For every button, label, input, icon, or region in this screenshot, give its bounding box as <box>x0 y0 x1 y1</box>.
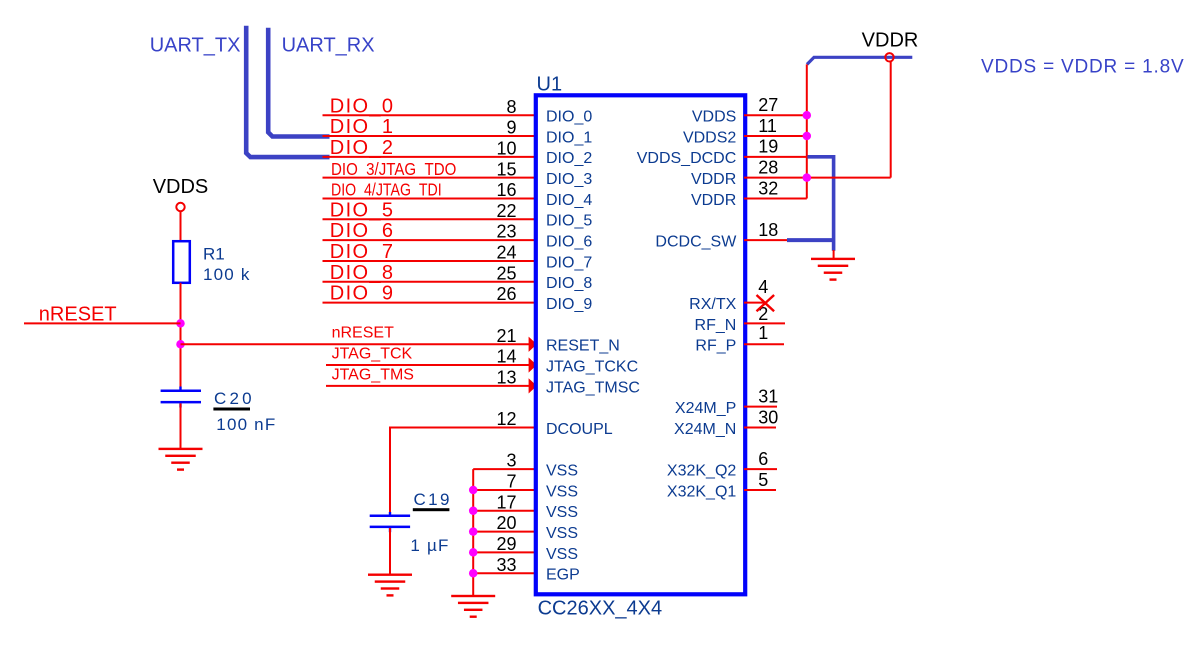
power symbol VDDS (open circle) <box>176 203 184 211</box>
svg-text:29: 29 <box>496 534 516 554</box>
wire pin 30 X24M_N stub <box>744 427 776 429</box>
svg-text:15: 15 <box>496 159 516 179</box>
wire pin 1 RF_P stub <box>744 343 784 345</box>
capacitor C20 top plate <box>161 390 201 393</box>
svg-text:19: 19 <box>758 137 778 157</box>
wire DIO_0 to pin 8 <box>323 114 537 116</box>
svg-text:X24M_P: X24M_P <box>675 400 736 417</box>
svg-text:3: 3 <box>506 451 516 471</box>
svg-text:VSS: VSS <box>546 463 578 480</box>
wire pin 6 X32K_Q2 stub <box>744 468 777 470</box>
svg-text:DCDC_SW: DCDC_SW <box>655 234 737 251</box>
svg-text:DIO_1: DIO_1 <box>546 129 592 146</box>
svg-text:RF_P: RF_P <box>695 338 736 355</box>
svg-text:100 k: 100 k <box>203 265 251 284</box>
svg-text:9: 9 <box>506 118 516 138</box>
svg-text:CC26XX_4X4: CC26XX_4X4 <box>538 597 663 619</box>
svg-text:JTAG_TMSC: JTAG_TMSC <box>546 379 640 396</box>
IC U1 body CC26XX_4X4 <box>536 95 745 594</box>
svg-text:8: 8 <box>506 97 516 117</box>
svg-text:JTAG_TCKC: JTAG_TCKC <box>546 358 638 375</box>
wire JTAG_TCK to pin 14 <box>326 364 530 366</box>
svg-text:UART_TX: UART_TX <box>150 35 241 57</box>
wire DIO_5 to pin 22 <box>323 218 537 220</box>
wire UART_RX bus (thick blue L-shape into DIO_1) <box>268 28 329 137</box>
capacitor C20 refdes underline <box>213 408 250 411</box>
node junction VDDR pin28 <box>803 173 812 182</box>
wire VSS pin row 19 <box>473 510 536 512</box>
svg-text:VSS: VSS <box>546 504 578 521</box>
svg-text:26: 26 <box>496 284 516 304</box>
capacitor C19 plate stubs <box>389 512 391 515</box>
svg-text:16: 16 <box>496 180 516 200</box>
ground below EGP/VSS bus <box>451 595 495 618</box>
wire DCDC_SW to ground (blue) <box>787 238 834 242</box>
svg-text:VDDS2: VDDS2 <box>683 129 736 146</box>
svg-text:4: 4 <box>758 277 768 297</box>
svg-text:22: 22 <box>496 201 516 221</box>
svg-text:10: 10 <box>496 138 516 158</box>
svg-text:DIO_7: DIO_7 <box>330 241 395 263</box>
svg-text:DIO_5: DIO_5 <box>546 213 592 230</box>
svg-text:X24M_N: X24M_N <box>674 421 736 438</box>
wire VSS pin row 22 <box>473 572 536 574</box>
svg-text:20: 20 <box>496 513 516 533</box>
svg-text:13: 13 <box>496 367 516 387</box>
resistor R1 body <box>173 241 190 283</box>
wire VSS pin row 21 <box>473 551 536 553</box>
wire C20 to ground <box>180 403 182 448</box>
wire JTAG_TMS to pin 13 <box>326 385 530 387</box>
svg-text:DCOUPL: DCOUPL <box>546 421 613 438</box>
svg-text:21: 21 <box>496 326 516 346</box>
svg-text:JTAG_TCK: JTAG_TCK <box>332 346 413 363</box>
node junction VSS bus <box>469 569 478 578</box>
svg-text:VSS: VSS <box>546 483 578 500</box>
node junction nRESET at R1 (row10) <box>176 319 185 328</box>
svg-text:18: 18 <box>758 220 778 240</box>
svg-text:14: 14 <box>496 347 516 367</box>
svg-text:DIO_0: DIO_0 <box>546 109 592 126</box>
wire DCOUPL to C19 <box>390 428 536 515</box>
svg-text:DIO_8: DIO_8 <box>546 275 592 292</box>
ground right of U1 (DCDC) <box>811 258 855 281</box>
svg-text:VDDS = VDDR = 1.8V: VDDS = VDDR = 1.8V <box>981 57 1184 78</box>
wire VSS pin row 20 <box>473 531 536 533</box>
svg-text:C20: C20 <box>214 389 255 408</box>
svg-text:6: 6 <box>758 449 768 469</box>
wire VDDS_DCDC elbow (blue) <box>808 157 834 251</box>
ground below C20 <box>159 448 203 471</box>
svg-text:VDDS: VDDS <box>153 176 209 198</box>
wire DIO_2 to pin 10 <box>323 156 537 158</box>
svg-text:C19: C19 <box>414 490 452 509</box>
no-connect X on RX/TX pin 4 <box>757 295 775 311</box>
wire pin 31 X24M_P stub <box>744 406 777 408</box>
svg-text:VDDR: VDDR <box>691 192 736 209</box>
wire DIO_7 to pin 24 <box>323 260 537 262</box>
svg-text:12: 12 <box>496 409 516 429</box>
wire VSS bus vertical <box>472 469 474 596</box>
wire DIO_3 to pin 15 <box>323 177 537 179</box>
wire pin 32 VDDR stub <box>744 197 807 199</box>
svg-text:EGP: EGP <box>546 567 580 584</box>
svg-text:VDDS_DCDC: VDDS_DCDC <box>637 150 737 167</box>
wire DIO_4 to pin 16 <box>323 197 537 199</box>
svg-text:32: 32 <box>758 178 778 198</box>
wire pin 11 VDDS2 stub <box>744 135 807 137</box>
node junction VDDS2 pin11 <box>803 132 812 141</box>
wire nRESET stub to left edge <box>24 322 181 324</box>
svg-text:DIO_2: DIO_2 <box>546 150 592 167</box>
svg-text:28: 28 <box>758 157 778 177</box>
svg-text:X32K_Q1: X32K_Q1 <box>667 483 736 500</box>
node junction VSS bus <box>469 486 478 495</box>
node junction RESET_N wire (row11) <box>176 340 185 349</box>
svg-text:DIO_0: DIO_0 <box>330 95 395 117</box>
wire nRESET junction to RESET_N pin <box>181 343 530 345</box>
svg-text:RX/TX: RX/TX <box>689 296 736 313</box>
svg-text:R1: R1 <box>203 245 225 264</box>
svg-text:1 µF: 1 µF <box>410 536 449 555</box>
svg-text:27: 27 <box>758 95 778 115</box>
wire VDDR circle down to pin 28 row <box>890 62 892 178</box>
wire VDDS branch vertical <box>806 64 808 198</box>
wire VDDR rail (blue) <box>807 57 912 64</box>
svg-text:DIO_3/JTAG_TDO: DIO_3/JTAG_TDO <box>331 159 456 180</box>
capacitor C20 plate stubs <box>179 387 181 390</box>
svg-text:U1: U1 <box>537 73 563 95</box>
svg-text:VDDR: VDDR <box>691 171 736 188</box>
svg-text:31: 31 <box>758 386 778 406</box>
wire pin 5 X32K_Q1 stub <box>744 489 776 491</box>
svg-text:7: 7 <box>506 472 516 492</box>
node junction VSS bus <box>469 507 478 516</box>
pin arrowhead JTAG_TCKC <box>529 357 537 372</box>
wire blue vertical to ground stub <box>833 250 835 259</box>
capacitor C19 refdes underline <box>413 508 450 511</box>
capacitor C19 bottom plate <box>370 526 410 529</box>
capacitor C20 bottom plate <box>161 401 201 404</box>
node junction VDDS pin27 <box>803 111 812 120</box>
svg-text:nRESET: nRESET <box>39 303 117 325</box>
wire VSS pin row 17 <box>473 468 536 470</box>
wire pin 28 VDDR stub <box>744 177 891 179</box>
svg-text:DIO_4/JTAG_TDI: DIO_4/JTAG_TDI <box>331 180 442 200</box>
node junction VSS bus <box>469 548 478 557</box>
pin arrowhead RESET_N <box>529 337 537 352</box>
svg-text:DIO_6: DIO_6 <box>546 234 592 251</box>
wire VSS pin row 18 <box>473 489 536 491</box>
wire pin 2 RF_N stub <box>744 322 785 324</box>
capacitor C19 top plate <box>370 515 410 518</box>
wire VDDS circle to R1 <box>180 212 182 241</box>
svg-text:100 nF: 100 nF <box>216 415 276 434</box>
wire DIO_1 to pin 9 <box>323 135 537 137</box>
svg-text:VSS: VSS <box>546 546 578 563</box>
svg-text:DIO_2: DIO_2 <box>330 137 395 159</box>
svg-text:24: 24 <box>496 243 516 263</box>
svg-text:UART_RX: UART_RX <box>282 35 375 57</box>
svg-text:DIO_4: DIO_4 <box>546 192 592 209</box>
svg-text:VDDR: VDDR <box>862 30 919 52</box>
wire DIO_9 to pin 26 <box>323 302 537 304</box>
svg-text:DIO_3: DIO_3 <box>546 171 592 188</box>
wire pin 4 RX/TX stub <box>744 302 766 304</box>
svg-text:VDDS: VDDS <box>692 109 736 126</box>
svg-text:JTAG_TMS: JTAG_TMS <box>332 367 414 384</box>
svg-text:DIO_1: DIO_1 <box>330 116 395 138</box>
svg-text:VSS: VSS <box>546 525 578 542</box>
svg-text:1: 1 <box>758 323 768 343</box>
svg-text:DIO_6: DIO_6 <box>330 220 395 242</box>
pin arrowhead JTAG_TMSC <box>529 378 537 393</box>
svg-text:nRESET: nRESET <box>332 325 394 342</box>
svg-text:RF_N: RF_N <box>695 317 737 334</box>
svg-text:DIO_7: DIO_7 <box>546 254 592 271</box>
svg-text:DIO_9: DIO_9 <box>546 296 592 313</box>
wire DIO_6 to pin 23 <box>323 239 537 241</box>
wire C19 to ground <box>389 528 391 574</box>
svg-text:RESET_N: RESET_N <box>546 338 620 355</box>
wire UART_TX bus (thick blue L-shape into DIO_2) <box>246 26 329 157</box>
wire pin 27 VDDS stub <box>744 114 807 116</box>
svg-text:DIO_8: DIO_8 <box>330 262 395 284</box>
svg-text:11: 11 <box>758 116 777 136</box>
power symbol VDDR (open circle) <box>885 53 893 61</box>
svg-text:DIO_5: DIO_5 <box>330 199 395 221</box>
svg-text:30: 30 <box>758 407 778 427</box>
node junction VSS bus <box>469 527 478 536</box>
svg-text:17: 17 <box>496 492 516 512</box>
wire R1 to nRESET junction and C20 <box>180 283 182 391</box>
wire DIO_8 to pin 25 <box>323 281 537 283</box>
svg-text:25: 25 <box>496 263 516 283</box>
svg-text:33: 33 <box>496 555 516 575</box>
wire pin 18 DCDC_SW stub <box>744 239 789 241</box>
svg-text:5: 5 <box>758 470 768 490</box>
svg-text:X32K_Q2: X32K_Q2 <box>667 463 736 480</box>
svg-text:DIO_9: DIO_9 <box>330 283 395 305</box>
wire pin 19 VDDS_DCDC stub <box>744 156 810 158</box>
ground below C19 <box>368 574 412 597</box>
svg-text:23: 23 <box>496 222 516 242</box>
